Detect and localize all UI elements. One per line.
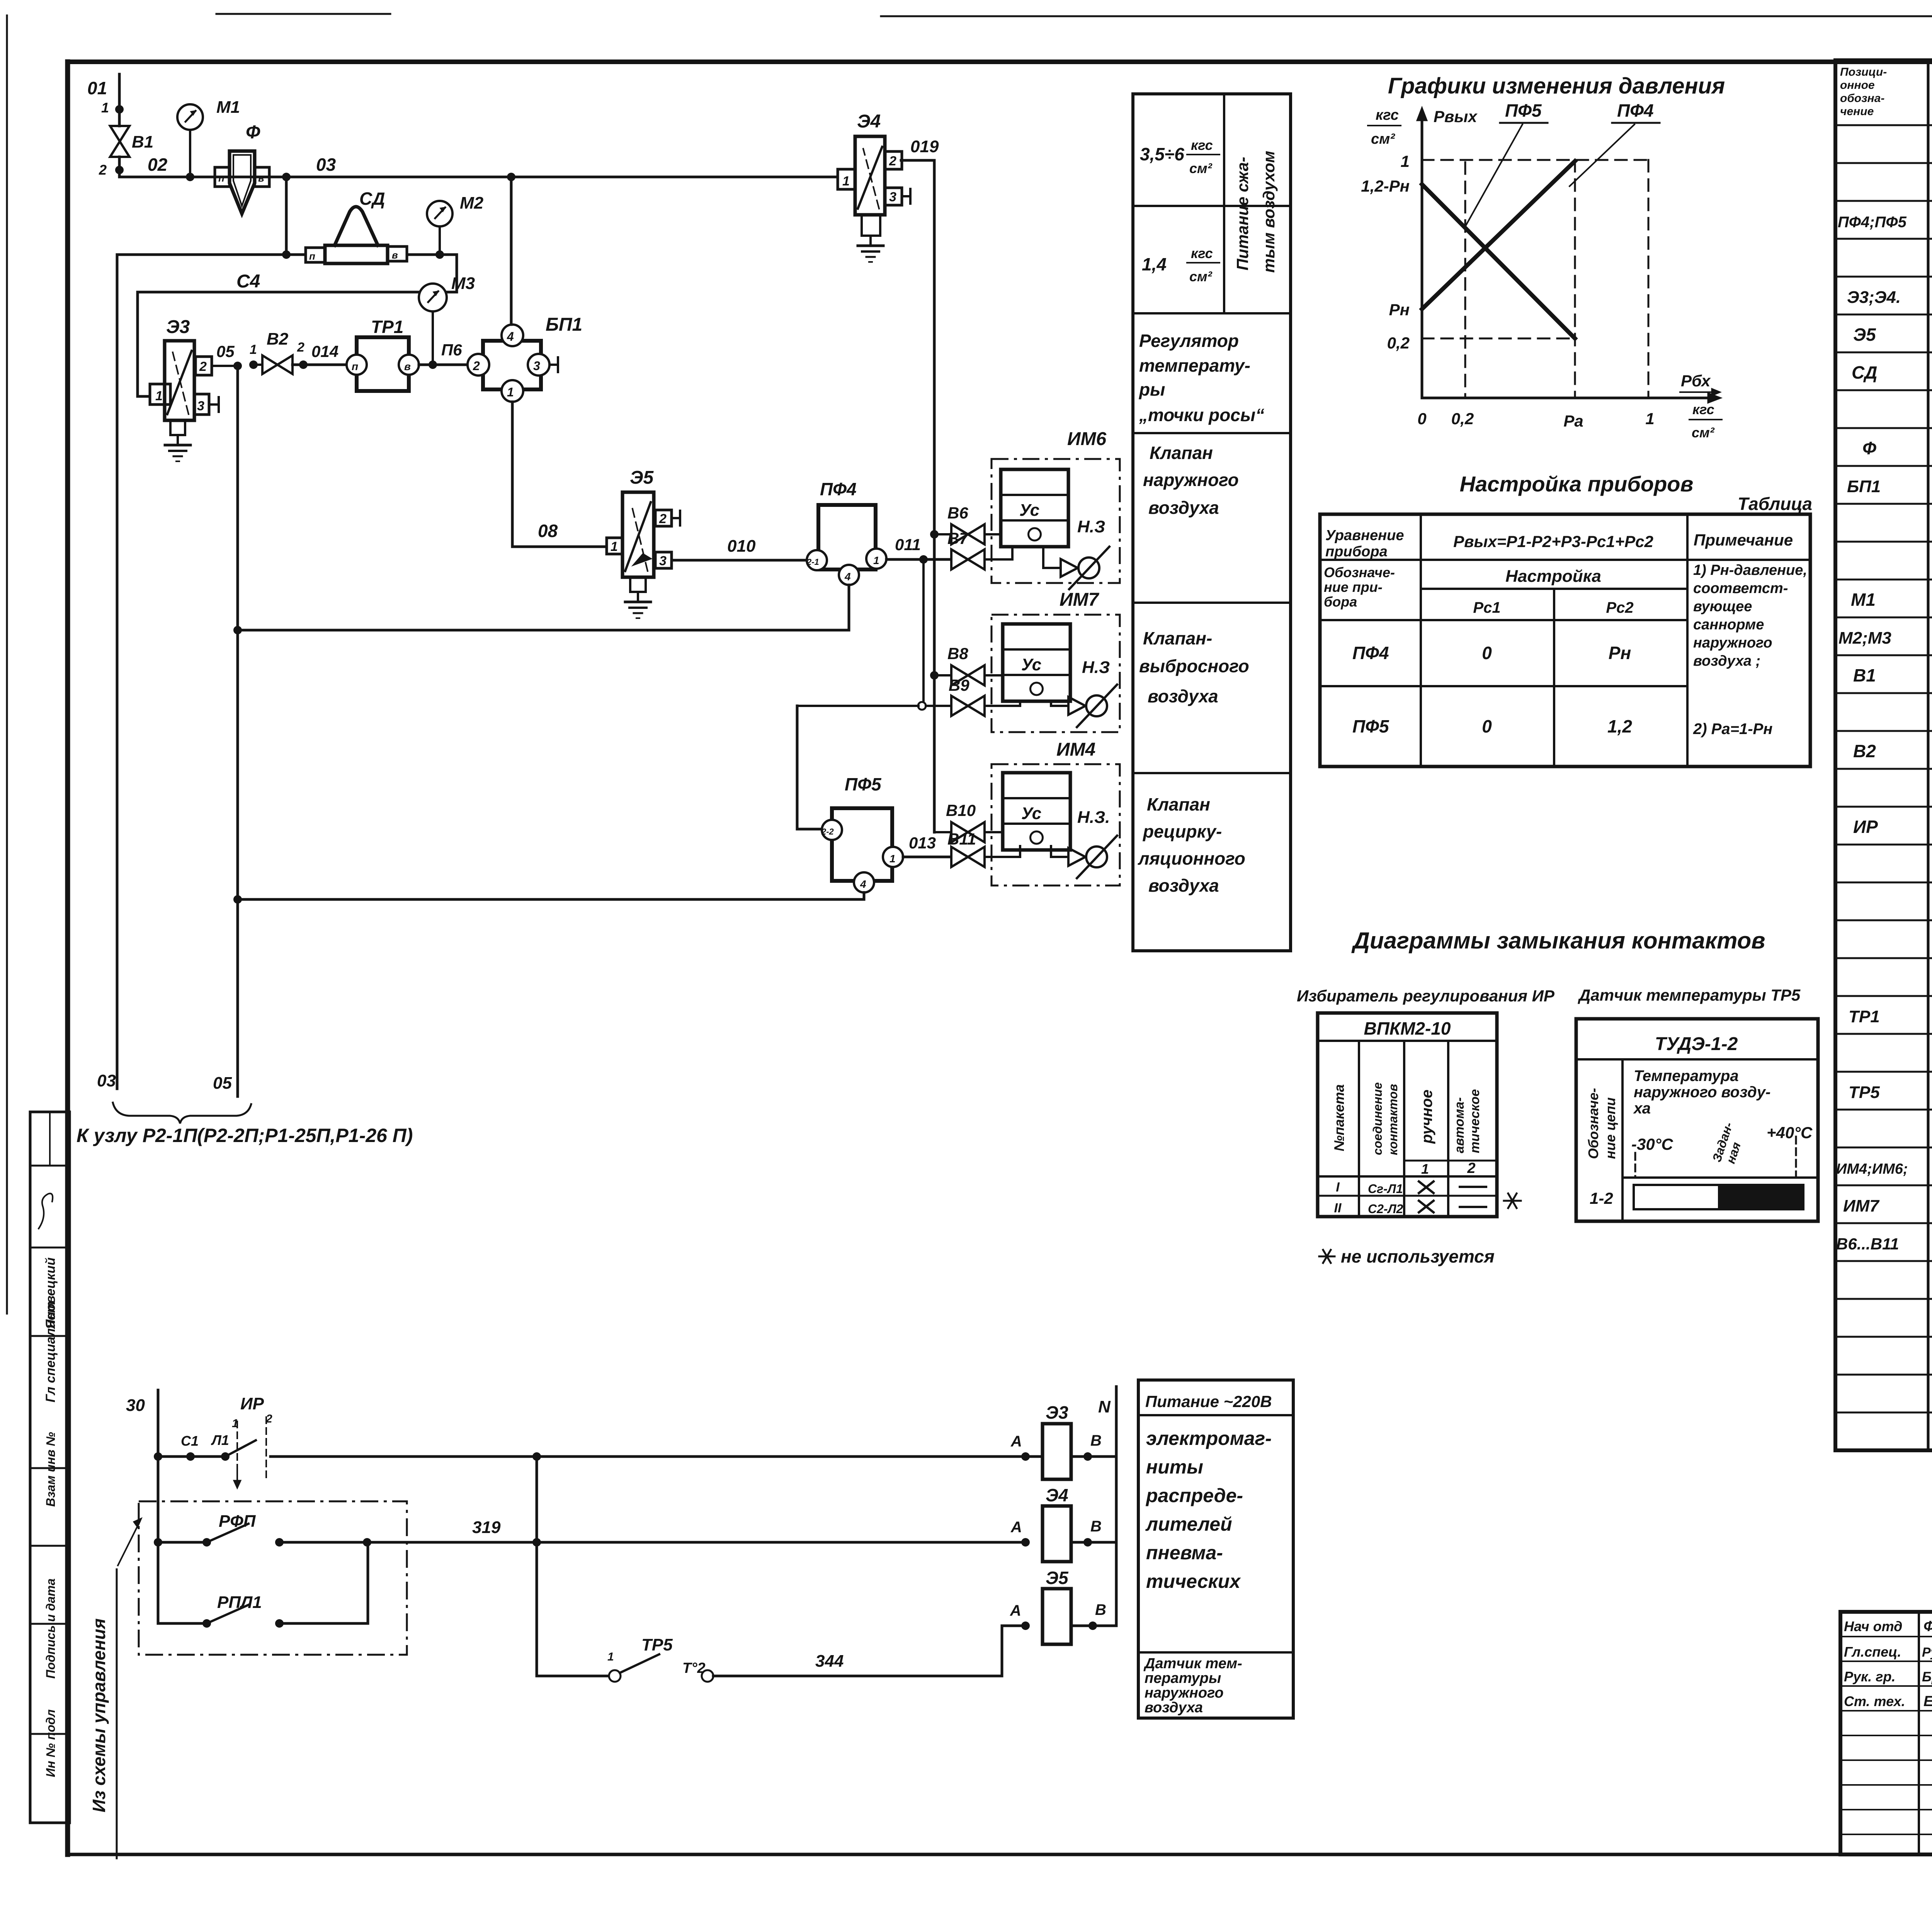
svg-text:Гл специалист: Гл специалист <box>43 1301 58 1402</box>
wire PF4 return <box>233 585 849 634</box>
svg-text:ха: ха <box>1633 1100 1651 1117</box>
svg-text:4: 4 <box>844 571 851 583</box>
svg-text:В7: В7 <box>947 529 969 547</box>
svg-text:011: 011 <box>895 535 921 554</box>
svg-text:воздуха ;: воздуха ; <box>1693 653 1760 669</box>
svg-text:1: 1 <box>101 100 109 116</box>
svg-text:обозна-: обозна- <box>1840 92 1884 105</box>
svg-text:1: 1 <box>873 554 879 566</box>
svg-text:наружного возду-: наружного возду- <box>1634 1084 1770 1101</box>
svg-text:Рбх: Рбх <box>1681 372 1711 390</box>
svg-text:тических: тических <box>1146 1570 1241 1592</box>
svg-text:В: В <box>1090 1518 1102 1535</box>
membrane actuator IM4 <box>992 739 1120 886</box>
svg-text:ручное: ручное <box>1418 1089 1435 1144</box>
valve B11 <box>947 830 1020 867</box>
svg-text:электромаг-: электромаг- <box>1146 1428 1272 1449</box>
svg-text:ИМ7: ИМ7 <box>1060 590 1100 610</box>
svg-text:Клапан: Клапан <box>1150 443 1213 463</box>
node 01 inlet <box>87 74 124 116</box>
text K uzlu <box>77 1125 413 1146</box>
svg-text:Настройка приборов: Настройка приборов <box>1460 472 1694 496</box>
svg-text:Э3;Э4.: Э3;Э4. <box>1847 288 1901 307</box>
svg-text:ТУДЭ-1-2: ТУДЭ-1-2 <box>1655 1034 1738 1054</box>
svg-text:013: 013 <box>909 834 936 852</box>
svg-text:ТР1: ТР1 <box>1849 1007 1880 1026</box>
svg-text:0,2: 0,2 <box>1387 334 1410 352</box>
svg-text:ПФ5: ПФ5 <box>1505 100 1542 121</box>
graph curve labels <box>1464 100 1660 228</box>
gauge M2 <box>427 194 484 259</box>
svg-text:в: в <box>258 172 264 184</box>
svg-text:ПФ4: ПФ4 <box>1617 100 1654 121</box>
svg-text:В6...В11: В6...В11 <box>1836 1235 1899 1253</box>
svg-text:3: 3 <box>659 554 667 568</box>
svg-text:Фингер: Фингер <box>1923 1618 1932 1635</box>
relay box dashed <box>139 1501 407 1655</box>
svg-text:Н.З: Н.З <box>1077 517 1105 536</box>
valve B8 <box>930 644 1003 685</box>
gauge M1 <box>177 98 240 181</box>
svg-text:Гл.спец.: Гл.спец. <box>1844 1644 1901 1660</box>
svg-text:Клапан-: Клапан- <box>1143 628 1212 648</box>
contact C1 L1 <box>181 1432 256 1461</box>
graph axes <box>1417 107 1721 403</box>
wire PF5 return <box>233 892 864 904</box>
svg-text:05: 05 <box>213 1074 232 1093</box>
svg-text:2-1: 2-1 <box>806 557 819 567</box>
svg-text:Рн: Рн <box>1389 301 1410 319</box>
svg-text:П6: П6 <box>441 341 462 359</box>
svg-text:Клапан: Клапан <box>1147 794 1210 814</box>
summator PF5 <box>821 774 903 892</box>
svg-text:М1: М1 <box>216 98 240 117</box>
svg-text:В: В <box>1090 1432 1102 1449</box>
spec table grid <box>1835 60 1932 1450</box>
svg-text:Н.З: Н.З <box>1082 658 1110 677</box>
svg-text:2-2: 2-2 <box>821 827 834 836</box>
svg-text:ПФ4: ПФ4 <box>1352 643 1389 663</box>
svg-text:ТР5: ТР5 <box>641 1635 673 1654</box>
summator PF4 <box>806 479 886 585</box>
svg-text:Э3: Э3 <box>1046 1402 1068 1423</box>
svg-text:344: 344 <box>815 1652 844 1671</box>
svg-text:В2: В2 <box>1853 741 1876 761</box>
wire 013 <box>903 834 950 857</box>
svg-text:вующее: вующее <box>1693 598 1752 615</box>
bus N <box>1098 1387 1116 1626</box>
graph curve PF4 <box>1422 161 1575 309</box>
svg-text:Э5: Э5 <box>1046 1568 1069 1588</box>
coil E3 <box>1010 1402 1116 1479</box>
svg-text:1) Рн-давление,: 1) Рн-давление, <box>1693 562 1807 578</box>
svg-text:ние цепи: ние цепи <box>1602 1097 1618 1159</box>
svg-text:1: 1 <box>889 853 896 865</box>
svg-text:03: 03 <box>97 1071 116 1090</box>
svg-text:Из схемы управления: Из схемы управления <box>89 1618 109 1812</box>
svg-text:30: 30 <box>126 1396 145 1415</box>
svg-text:М2;М3: М2;М3 <box>1838 629 1891 648</box>
valve B10 <box>934 801 1003 842</box>
svg-text:Примечание: Примечание <box>1694 531 1793 549</box>
svg-text:выбросного: выбросного <box>1139 656 1249 676</box>
wire PF5 input riser <box>797 706 918 829</box>
svg-text:М2: М2 <box>460 194 484 212</box>
svg-text:1: 1 <box>155 389 163 403</box>
svg-text:Ус: Ус <box>1021 655 1041 674</box>
rail N1 <box>154 1452 1024 1461</box>
svg-text:Н.З.: Н.З. <box>1077 808 1110 827</box>
left margin stamp <box>30 1112 70 1823</box>
svg-text:1: 1 <box>842 174 850 189</box>
svg-text:1: 1 <box>1421 1161 1429 1177</box>
svg-text:бора: бора <box>1324 594 1357 610</box>
svg-text:№пакета: №пакета <box>1331 1084 1347 1151</box>
svg-text:ИМ6: ИМ6 <box>1067 429 1107 449</box>
valve B7 <box>947 529 1012 569</box>
diagrams title <box>1351 928 1765 953</box>
svg-text:воздуха: воздуха <box>1148 875 1219 896</box>
svg-text:05: 05 <box>216 342 235 360</box>
svg-text:Ин № подл: Ин № подл <box>44 1709 58 1777</box>
wire C4 <box>138 255 457 396</box>
svg-text:В10: В10 <box>946 801 976 819</box>
sensor table TUDE-1-2 <box>1576 1019 1818 1221</box>
svg-text:2: 2 <box>1467 1160 1475 1176</box>
membrane actuator IM7 <box>992 590 1120 732</box>
svg-text:Э4: Э4 <box>1046 1485 1068 1505</box>
svg-text:тическое: тическое <box>1468 1089 1482 1153</box>
valve B9 <box>926 676 1020 716</box>
svg-text:Рубчинский: Рубчинский <box>1922 1645 1932 1660</box>
valve B2 <box>253 330 347 374</box>
svg-text:В9: В9 <box>949 676 969 694</box>
wire to SD <box>117 253 306 256</box>
svg-text:2: 2 <box>659 512 667 526</box>
filter F <box>215 122 269 214</box>
svg-text:соединение: соединение <box>1371 1082 1384 1155</box>
svg-text:Рвых=Р1-Р2+Р3-Рс1+Рс2: Рвых=Р1-Р2+Р3-Рс1+Рс2 <box>1453 532 1653 551</box>
svg-text:4: 4 <box>507 330 514 343</box>
svg-text:Избиратель регулирования ИР: Избиратель регулирования ИР <box>1297 987 1555 1005</box>
svg-text:II: II <box>1334 1201 1342 1215</box>
svg-text:воздуха: воздуха <box>1148 498 1219 518</box>
wire 30 label <box>126 1396 145 1415</box>
coil E5 <box>1010 1568 1116 1644</box>
svg-text:Э3: Э3 <box>166 317 190 337</box>
svg-text:А: А <box>1010 1602 1021 1619</box>
svg-text:01: 01 <box>87 78 107 98</box>
node 03 tee <box>282 173 291 259</box>
settings title <box>1460 472 1812 514</box>
svg-text:08: 08 <box>538 521 558 541</box>
svg-text:Уравнение: Уравнение <box>1325 527 1404 544</box>
svg-text:010: 010 <box>727 537 756 556</box>
svg-text:2: 2 <box>297 340 304 355</box>
title block signatures <box>1840 1612 1932 1854</box>
svg-text:воздуха: воздуха <box>1145 1700 1203 1716</box>
svg-text:+40°С: +40°С <box>1767 1123 1813 1142</box>
wire P6 <box>419 341 468 365</box>
bus left vertical <box>157 1390 160 1623</box>
svg-text:2: 2 <box>889 154 896 168</box>
svg-text:0: 0 <box>1482 643 1492 663</box>
svg-text:Настройка: Настройка <box>1505 567 1601 586</box>
wire 011 drop <box>918 559 926 710</box>
annotation column pneumatic <box>1133 94 1291 951</box>
wire 019 <box>901 137 939 832</box>
svg-text:см²: см² <box>1371 131 1395 147</box>
svg-text:см²: см² <box>1189 160 1213 176</box>
graph axis labels <box>1361 107 1722 440</box>
svg-text:014: 014 <box>311 342 338 360</box>
wire 02 <box>119 155 838 177</box>
svg-text:Температура: Температура <box>1634 1067 1739 1084</box>
svg-text:1,4: 1,4 <box>1142 254 1167 274</box>
svg-text:Ерина: Ерина <box>1923 1693 1932 1710</box>
distributor E5 <box>607 467 680 618</box>
svg-text:в: в <box>392 249 398 261</box>
svg-text:кгс: кгс <box>1376 107 1399 123</box>
svg-text:0: 0 <box>1482 716 1492 736</box>
wire 010 <box>672 537 807 560</box>
svg-text:Датчик тем-: Датчик тем- <box>1143 1655 1242 1672</box>
svg-text:ние при-: ние при- <box>1324 579 1383 595</box>
bypass panel BP1 <box>468 314 582 402</box>
svg-text:Позици-: Позици- <box>1840 66 1887 78</box>
svg-text:3,5÷6: 3,5÷6 <box>1140 144 1184 164</box>
svg-text:2: 2 <box>99 162 107 178</box>
wire 03 left drop <box>116 255 119 1089</box>
svg-text:1: 1 <box>611 539 618 554</box>
svg-text:Регулятор: Регулятор <box>1139 331 1239 351</box>
svg-text:2: 2 <box>473 359 480 373</box>
svg-text:рецирку-: рецирку- <box>1142 821 1222 841</box>
svg-text:в: в <box>404 360 411 372</box>
contact RPL1 <box>158 1542 368 1628</box>
svg-text:0: 0 <box>1417 410 1426 428</box>
svg-text:„точки росы“: „точки росы“ <box>1139 405 1264 425</box>
svg-text:ры: ры <box>1138 379 1165 399</box>
svg-text:03: 03 <box>316 155 336 175</box>
svg-text:саннорме: саннорме <box>1693 617 1764 633</box>
svg-text:не используется: не используется <box>1341 1246 1495 1266</box>
BP1 port3 plug <box>549 357 558 372</box>
svg-text:3: 3 <box>533 359 540 373</box>
svg-text:Ст. тех.: Ст. тех. <box>1844 1693 1905 1709</box>
svg-text:I: I <box>1336 1180 1340 1195</box>
svg-text:1-2: 1-2 <box>1590 1189 1613 1207</box>
graph dashed grid <box>1422 160 1648 398</box>
svg-text:В11: В11 <box>947 830 976 848</box>
text iz shemy <box>89 1518 141 1858</box>
svg-text:п: п <box>218 172 224 184</box>
svg-text:Ф: Ф <box>1862 438 1876 458</box>
svg-text:В2: В2 <box>267 330 289 348</box>
svg-text:М3: М3 <box>451 274 475 293</box>
svg-text:319: 319 <box>472 1518 501 1537</box>
settings table <box>1320 514 1810 767</box>
distributor E3 <box>150 317 219 461</box>
svg-text:Ф: Ф <box>246 122 260 143</box>
svg-text:4: 4 <box>860 878 866 890</box>
svg-text:кгс: кгс <box>1191 137 1213 153</box>
svg-text:Графики изменения давления: Графики изменения давления <box>1388 73 1725 99</box>
svg-text:п: п <box>309 250 315 262</box>
svg-text:1,2-Рн: 1,2-Рн <box>1361 177 1410 195</box>
svg-text:0,2: 0,2 <box>1451 410 1474 428</box>
pressure stabilizer SD <box>306 189 407 263</box>
svg-text:ПФ5: ПФ5 <box>845 774 882 794</box>
svg-text:1,2: 1,2 <box>1607 716 1632 736</box>
distributor E4 <box>838 111 910 262</box>
svg-text:ИМ4;ИМ6;: ИМ4;ИМ6; <box>1836 1161 1908 1177</box>
svg-text:кгс: кгс <box>1191 245 1213 261</box>
svg-text:1: 1 <box>250 342 257 357</box>
spec table texts <box>1836 134 1932 1294</box>
valve B1 <box>99 109 153 178</box>
contact TR5 <box>537 1626 1024 1682</box>
svg-text:-30°С: -30°С <box>1631 1135 1673 1153</box>
svg-text:ИР: ИР <box>240 1394 264 1413</box>
svg-text:Обозначе-: Обозначе- <box>1324 564 1395 580</box>
svg-text:пературы: пературы <box>1145 1670 1221 1686</box>
node 05 at E3 <box>212 342 258 370</box>
svg-text:Нач отд: Нач отд <box>1844 1618 1902 1634</box>
svg-text:см²: см² <box>1692 425 1715 440</box>
svg-text:пневма-: пневма- <box>1146 1542 1223 1564</box>
pipe exit labels <box>97 1071 232 1093</box>
svg-text:ниты: ниты <box>1146 1456 1203 1478</box>
scan edge artifacts <box>7 14 1932 1314</box>
svg-text:Датчик температуры ТР5: Датчик температуры ТР5 <box>1578 986 1801 1004</box>
svg-text:Сг-Л1: Сг-Л1 <box>1368 1182 1403 1196</box>
svg-text:Подпись и дата: Подпись и дата <box>44 1579 58 1679</box>
svg-text:1: 1 <box>1645 410 1654 428</box>
svg-text:ВПКМ2-10: ВПКМ2-10 <box>1364 1018 1451 1038</box>
svg-text:ТР5: ТР5 <box>1849 1083 1880 1102</box>
svg-text:А: А <box>1010 1519 1022 1536</box>
svg-text:Бронштейн: Бронштейн <box>1922 1669 1932 1684</box>
wire 05 drop <box>236 366 239 1096</box>
svg-text:прибора: прибора <box>1325 544 1388 560</box>
svg-text:Э5: Э5 <box>630 467 654 488</box>
svg-text:К узлу Р2-1П(Р2-2П;Р1-25П,Р1-2: К узлу Р2-1П(Р2-2П;Р1-25П,Р1-26 П) <box>77 1125 413 1146</box>
svg-text:Ус: Ус <box>1021 804 1041 823</box>
svg-text:Ус: Ус <box>1019 501 1039 520</box>
svg-text:А: А <box>1010 1433 1022 1450</box>
asterisk note <box>1319 1193 1521 1266</box>
svg-text:ПФ4: ПФ4 <box>820 479 857 499</box>
svg-text:В6: В6 <box>947 504 968 522</box>
gauge M3 <box>419 274 475 369</box>
svg-text:онное: онное <box>1840 79 1875 92</box>
diagram subtitles <box>1297 986 1801 1005</box>
membrane actuator IM6 <box>992 429 1120 589</box>
svg-text:Питание сжа-: Питание сжа- <box>1233 157 1252 270</box>
graph curve PF5 <box>1422 184 1575 338</box>
svg-text:наружного: наружного <box>1693 635 1772 651</box>
svg-text:ИМ7: ИМ7 <box>1843 1197 1880 1215</box>
svg-text:02: 02 <box>148 155 168 175</box>
svg-text:1: 1 <box>507 385 514 399</box>
svg-text:Диаграммы замыкания контактов: Диаграммы замыкания контактов <box>1351 928 1765 953</box>
svg-text:БП1: БП1 <box>1847 477 1881 496</box>
svg-text:Рс1: Рс1 <box>1473 599 1500 616</box>
svg-text:кгс: кгс <box>1692 401 1714 417</box>
svg-text:1: 1 <box>607 1650 614 1663</box>
wire 011 <box>886 535 950 564</box>
svg-text:ПФ4;ПФ5: ПФ4;ПФ5 <box>1838 214 1907 231</box>
svg-text:СД: СД <box>359 189 385 209</box>
svg-text:3: 3 <box>889 190 896 204</box>
svg-text:Э5: Э5 <box>1853 325 1876 345</box>
graph title <box>1388 73 1725 99</box>
svg-text:чение: чение <box>1840 105 1874 118</box>
svg-text:019: 019 <box>910 137 939 156</box>
svg-text:ИМ4: ИМ4 <box>1056 739 1095 760</box>
svg-text:Таблица: Таблица <box>1738 494 1812 514</box>
svg-text:С4: С4 <box>236 271 260 292</box>
svg-text:М1: М1 <box>1851 590 1876 610</box>
svg-text:2) Ра=1-Рн: 2) Ра=1-Рн <box>1693 721 1772 738</box>
svg-text:Взам инв №: Взам инв № <box>44 1432 58 1507</box>
svg-text:В: В <box>1095 1601 1106 1618</box>
selector IR marks <box>232 1394 272 1488</box>
contact RFP <box>154 1512 1026 1547</box>
svg-text:автома-: автома- <box>1452 1097 1467 1153</box>
svg-text:2: 2 <box>199 359 207 374</box>
svg-text:3: 3 <box>197 399 204 413</box>
svg-text:наружного: наружного <box>1143 470 1239 490</box>
svg-text:Питание ~220В: Питание ~220В <box>1145 1392 1272 1411</box>
svg-text:Рук. гр.: Рук. гр. <box>1844 1669 1896 1684</box>
node rail drop <box>532 1452 541 1676</box>
svg-text:ИР: ИР <box>1853 817 1878 837</box>
svg-text:N: N <box>1098 1397 1111 1416</box>
svg-text:воздуха: воздуха <box>1148 686 1218 706</box>
wire 08 <box>512 402 607 547</box>
svg-text:ПФ5: ПФ5 <box>1352 716 1389 736</box>
svg-text:ляционного: ляционного <box>1138 848 1245 869</box>
valve B6 <box>930 504 1001 544</box>
svg-text:распреде-: распреде- <box>1145 1485 1243 1506</box>
svg-text:БП1: БП1 <box>546 314 582 335</box>
svg-text:тым воздухом: тым воздухом <box>1260 151 1278 273</box>
svg-text:п: п <box>352 360 358 372</box>
selector table VPKM2-10 <box>1318 1013 1497 1217</box>
svg-text:С1: С1 <box>181 1433 199 1449</box>
svg-text:В1: В1 <box>1853 665 1876 685</box>
svg-text:С2-Л2: С2-Л2 <box>1368 1202 1403 1216</box>
svg-text:В8: В8 <box>947 644 968 663</box>
svg-text:Л1: Л1 <box>211 1432 229 1448</box>
wire BP1 supply <box>507 173 515 325</box>
brace to control unit <box>113 1103 251 1123</box>
svg-text:Ра: Ра <box>1563 412 1583 430</box>
svg-text:В1: В1 <box>132 133 153 151</box>
svg-text:контактов: контактов <box>1386 1084 1400 1155</box>
svg-text:Рн: Рн <box>1609 643 1631 663</box>
svg-text:Рс2: Рс2 <box>1606 599 1633 616</box>
svg-text:Рвых: Рвых <box>1434 107 1478 126</box>
svg-text:ТР1: ТР1 <box>371 317 403 337</box>
thermoregulator TR1 <box>347 317 419 391</box>
svg-text:Э4: Э4 <box>857 111 881 132</box>
svg-text:1: 1 <box>1401 152 1410 170</box>
coil E4 <box>1010 1485 1116 1562</box>
svg-text:лителей: лителей <box>1145 1513 1232 1535</box>
